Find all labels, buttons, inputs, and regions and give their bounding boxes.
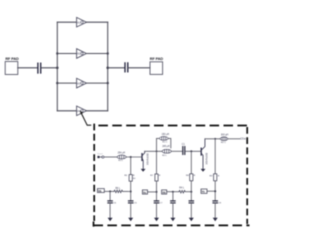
ground Vb1 bypass — [108, 218, 113, 222]
wire C5 to ground — [130, 202, 132, 217]
wire rail A (base bias stage 1) — [130, 157, 132, 174]
resistor R8 — [190, 174, 193, 181]
svg-text:R1 C: R1 C — [162, 141, 167, 143]
wire right bus to C2 — [108, 67, 125, 69]
wire amp A2 input — [57, 53, 76, 55]
svg-text:BFP640X: BFP640X — [204, 153, 208, 165]
wire amp A4 output — [86, 110, 107, 112]
node bypass junction Vb1 — [109, 190, 111, 192]
capacitor C9 (bypass D) — [189, 201, 193, 203]
wire L4 to output — [228, 138, 240, 140]
ground node C — [170, 218, 175, 222]
ground Q1 emitter — [141, 169, 146, 172]
svg-text:R4 L: R4 L — [179, 187, 185, 189]
capacitor C6 (bypass Vb1) — [108, 201, 112, 203]
node collector junction — [156, 150, 158, 152]
resistor R4 (zigzag) — [179, 190, 185, 193]
amplifier A3 — [77, 78, 87, 88]
callout line from A4 to detail box — [81, 113, 90, 125]
node C junction — [172, 191, 174, 193]
wire port to L1 — [105, 156, 118, 158]
svg-text:R1 L: R1 L — [118, 160, 123, 162]
wire R4 to rail D — [185, 191, 191, 193]
capacitor C1 (input coupling) — [38, 63, 41, 73]
svg-text:RF PAD: RF PAD — [5, 57, 19, 61]
dashed box top border — [98, 125, 249, 127]
wire amp A3 input — [57, 82, 76, 84]
resistor R9 — [214, 174, 217, 181]
ground rail B — [154, 218, 159, 222]
port P1 input (square + circle) — [97, 156, 99, 158]
svg-text:Vc: Vc — [143, 190, 147, 194]
node left bus row2 — [56, 52, 58, 54]
wire R5 to bottom rail — [130, 181, 132, 200]
source box Vb1 — [97, 189, 104, 193]
wire right bus — [107, 22, 109, 111]
ground rail A — [128, 218, 133, 222]
node rail E top junction — [214, 138, 216, 140]
wire amp A1 output — [86, 21, 107, 23]
svg-text:RF PAD: RF PAD — [150, 57, 164, 61]
wire left bus — [56, 22, 58, 111]
wire C10 to ground — [214, 203, 216, 218]
ground Q2 emitter — [201, 169, 206, 172]
amplifier A4 — [77, 106, 87, 116]
resistor R7 — [155, 174, 158, 181]
inductor L3 245 uH — [162, 149, 171, 153]
wire C1 to left bus — [41, 67, 57, 69]
capacitor C5 (bypass A) — [129, 201, 133, 203]
node input bus junction — [56, 67, 59, 70]
wire collector rail stage1 — [145, 150, 162, 152]
node rail E bottom junction — [214, 190, 216, 192]
source box Vc2 — [201, 189, 207, 193]
svg-text:BFP640X: BFP640X — [146, 154, 150, 166]
node bottom rail A junction — [130, 191, 132, 193]
amplifier A1 — [77, 17, 87, 27]
wire collector rail stage2 — [205, 138, 221, 140]
wire amp A4 input — [57, 110, 76, 112]
svg-text:R2 C: R2 C — [221, 142, 226, 144]
wire rail B (collector bias stage 1) — [156, 151, 158, 174]
svg-text:Term1: Term1 — [97, 154, 103, 156]
node right bus row2 — [107, 52, 109, 54]
source box Vb2 — [162, 190, 167, 194]
dashed box right border — [246, 127, 248, 224]
wire C7 to ground — [156, 203, 158, 218]
inductor L4 300 uH — [220, 137, 228, 141]
node Q2 base bias junction — [190, 150, 192, 152]
wire amp A2 output — [86, 53, 107, 55]
source box Vc1 — [142, 190, 147, 194]
wire L1 to Q1 base — [126, 156, 141, 158]
wire amp A1 input — [57, 21, 76, 23]
svg-text:R2 L: R2 L — [162, 155, 167, 157]
capacitor C2 (output coupling) — [125, 63, 128, 72]
ground rail E — [213, 218, 218, 222]
inductor L2 150 uH — [159, 137, 168, 141]
wire bypass stub Vb1 — [109, 191, 111, 200]
wire input box to C1 — [18, 67, 37, 69]
capacitor C3 (interstage) — [183, 147, 185, 155]
node bottom rail B junction — [156, 191, 158, 193]
wire R9 to bottom — [214, 181, 216, 201]
wire R8 to bottom — [190, 181, 192, 201]
capacitor C10 (bypass E) — [213, 201, 217, 203]
wire R7 to bottom rail — [156, 181, 158, 200]
node right bus row3 — [107, 82, 109, 84]
svg-text:Vb: Vb — [162, 190, 166, 194]
svg-text:150 μH: 150 μH — [162, 134, 170, 136]
wire C6 to ground — [109, 203, 111, 218]
resistor R6 (zigzag) — [114, 190, 123, 193]
wire Vb2 to node C — [167, 191, 179, 193]
wire L2 right stub down — [168, 138, 171, 148]
wire C3 to Q2 base — [185, 150, 200, 152]
wire stub up to L2 — [157, 138, 159, 151]
wire R6 to rail A — [123, 190, 131, 192]
capacitor C8 (bypass C) — [171, 201, 175, 203]
svg-text:245 μH: 245 μH — [162, 146, 170, 148]
svg-text:R6 L: R6 L — [115, 188, 121, 190]
resistor R5 — [129, 175, 132, 182]
amplifier A2 — [77, 49, 87, 59]
wire Vb1 to R6 — [104, 190, 114, 192]
wire C8 to ground — [172, 203, 174, 218]
capacitor C7 (bypass B) — [154, 201, 158, 203]
dashed box bottom border — [94, 222, 250, 227]
node rail D bottom junction — [190, 191, 192, 193]
wire C2 to output box — [128, 67, 150, 69]
wire rail D (base bias stage 2) — [190, 151, 192, 173]
port RF PAD (output) box — [150, 62, 163, 75]
wire amp A3 output — [86, 82, 107, 84]
wire Vc1 to rail B — [148, 191, 157, 193]
transistor Q1 — [142, 151, 145, 168]
node output bus junction — [106, 67, 109, 70]
dashed box left border — [93, 124, 95, 221]
ground rail D — [189, 218, 194, 222]
svg-text:Vc: Vc — [202, 190, 206, 194]
port RF PAD (input) box — [5, 62, 18, 75]
wire L3 to C3 — [171, 150, 182, 152]
inductor L1 254 uH — [117, 155, 126, 159]
node base bias junction — [130, 156, 132, 158]
wire rail E (collector bias stage 2) — [214, 139, 216, 174]
svg-text:300 μH: 300 μH — [221, 135, 229, 137]
svg-text:COut: COut — [240, 138, 246, 141]
wire Vc2 to rail E — [207, 190, 215, 192]
svg-text:254 μH: 254 μH — [118, 152, 126, 154]
wire bypass stub node C — [172, 192, 174, 201]
callout arrowhead — [80, 111, 83, 115]
svg-text:Vb: Vb — [98, 189, 102, 193]
transistor Q2 — [201, 139, 205, 169]
node left bus row3 — [56, 82, 58, 84]
wire C9 to ground — [190, 203, 192, 218]
